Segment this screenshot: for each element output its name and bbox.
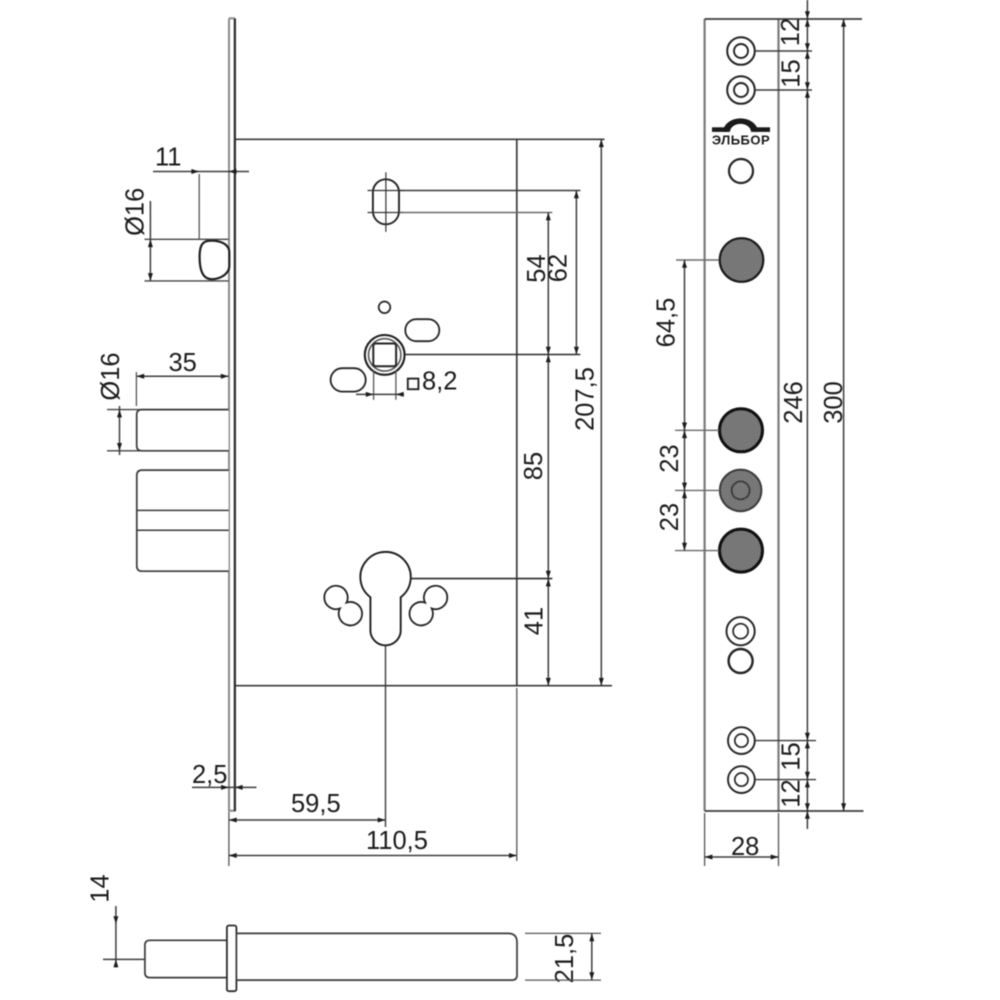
svg-text:21,5: 21,5 (551, 934, 579, 984)
latch bolt (side profile) (200, 241, 230, 280)
bolt pin (left small rectangle) (145, 940, 227, 977)
dimension 110,5 (body depth) (229, 688, 517, 861)
left dumbbell hole (324, 586, 362, 626)
svg-text:11: 11 (155, 144, 181, 172)
dimension line 12/15/246/15/12 (x=807.4) (805, 0, 810, 829)
screw hole top 2 (727, 76, 755, 104)
svg-text:207,5: 207,5 (572, 367, 600, 431)
svg-text:ЭЛЬБОР: ЭЛЬБОР (712, 133, 770, 148)
dimension line 300 (x=843.6) (841, 19, 846, 811)
svg-text:12: 12 (777, 18, 805, 46)
dimension 59,5 (cylinder backset) (229, 790, 386, 866)
ring hole below bolts (727, 617, 755, 645)
screw hole bottom 1 (728, 727, 755, 754)
svg-text:246: 246 (780, 381, 808, 424)
plain hole below ring (729, 649, 753, 673)
bolt flange (227, 926, 237, 992)
faceplate strip outline (705, 19, 864, 811)
plain hole below logo (729, 159, 753, 183)
dimension 8,2 (spindle square) (356, 370, 404, 400)
dimension 21,5 (bolt body height) (525, 933, 601, 983)
deadbolt top block (Ø16 bolt side view) (137, 410, 229, 451)
leader from deadbolt hole 3 (675, 550, 719, 552)
right dumbbell hole (410, 586, 448, 626)
faceplate (side view, vertical bar) (228, 18, 235, 811)
svg-text:Ø16: Ø16 (122, 188, 150, 236)
bolt body (long bar) (236, 933, 517, 980)
lower-left obround hole (331, 368, 366, 391)
screw hole top 1 (727, 37, 755, 65)
svg-text:28: 28 (731, 833, 759, 861)
svg-text:62: 62 (545, 254, 573, 282)
svg-text:15: 15 (778, 742, 806, 770)
leader from cylinder to 85/41 dims (411, 578, 553, 580)
lock body rectangle (236, 139, 612, 685)
deadbolt lower block group (side view) (137, 470, 229, 571)
small pin hole (379, 302, 391, 314)
svg-text:300: 300 (820, 381, 848, 424)
svg-text:8,2: 8,2 (422, 368, 457, 396)
cylinder centerline extension down (385, 646, 387, 827)
leader from screw hole 2 (755, 89, 812, 91)
svg-text:23: 23 (656, 503, 684, 531)
euro cylinder profile hole (360, 552, 410, 645)
dimension line 207,5 (x=601) (599, 139, 604, 685)
ELBOR logo (712, 118, 770, 147)
label square 8,2 (408, 368, 458, 396)
leader from deadbolt hole 2 (675, 489, 720, 491)
svg-text:35: 35 (169, 349, 197, 377)
dimension 2,5 (faceplate thickness) (192, 761, 257, 790)
svg-text:2,5: 2,5 (192, 761, 227, 789)
leader from screw hole 1 (755, 50, 812, 52)
dimension 35 (bolt throw) (136, 349, 228, 406)
leader from hub to 85/54/62 dims (405, 354, 581, 356)
latch hole (hatched) (720, 238, 764, 282)
svg-text:23: 23 (656, 444, 684, 472)
deadbolt hole 3 (hatched) (720, 529, 763, 572)
svg-text:12: 12 (778, 779, 806, 807)
spindle hub (square follower) (365, 335, 405, 375)
svg-text:64,5: 64,5 (653, 298, 681, 348)
handle screws slotted hole (obround with two crosses) (368, 172, 404, 232)
leader from screw hole bottom 1 (755, 740, 816, 742)
upper-right obround hole (405, 319, 439, 341)
screw hole bottom 2 (728, 766, 755, 793)
dimension Ø16 (latch diameter) (122, 188, 229, 281)
svg-text:Ø16: Ø16 (97, 352, 125, 400)
svg-text:110,5: 110,5 (366, 827, 428, 855)
svg-text:14: 14 (87, 874, 115, 902)
dimension 28 (faceplate width) (705, 813, 779, 866)
svg-text:41: 41 (521, 607, 549, 635)
dimension 11 (latch protrusion) (153, 144, 249, 239)
leader from upper cross to 62 dim (400, 190, 581, 192)
leader from latch hole (676, 259, 719, 261)
dimension Ø16 (deadbolt diameter) (97, 352, 227, 455)
svg-text:15: 15 (778, 59, 806, 87)
dimension 14 (bolt pin height) (87, 874, 145, 967)
svg-text:59,5: 59,5 (291, 790, 341, 818)
leader from screw hole bottom 2 (755, 779, 816, 781)
deadbolt hole 2 with pin (hatched) (720, 470, 762, 512)
dimension 64,5 / 23 / 23 line (x=684.5) (682, 260, 687, 551)
leader from deadbolt hole 1 (675, 429, 719, 431)
dimension line 54/85/41 (x=548) (546, 213, 551, 686)
deadbolt hole 1 (hatched) (720, 409, 763, 452)
leader from lower cross to 54 dim (400, 212, 553, 214)
svg-text:85: 85 (520, 452, 548, 480)
dimension line 62 (x=576) (574, 191, 579, 355)
